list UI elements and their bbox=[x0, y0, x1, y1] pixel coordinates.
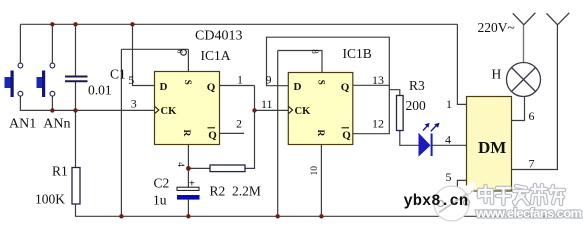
wire R1 top bbox=[75, 110, 77, 167]
wire C1 bottom bbox=[75, 82, 77, 111]
svg-text:100K: 100K bbox=[35, 192, 65, 207]
svg-text:1: 1 bbox=[237, 73, 243, 87]
svg-text:13: 13 bbox=[372, 73, 384, 87]
wire R3 bottom to LED bbox=[400, 131, 419, 146]
wire IC1B S column to bottom rail bbox=[277, 51, 279, 217]
wire DM pin5 bbox=[457, 180, 466, 216]
wire C2 bottom bbox=[187, 200, 189, 217]
pin 6 bbox=[175, 50, 184, 54]
wire IC1A S pin stub bbox=[187, 49, 189, 71]
svg-text:R: R bbox=[315, 130, 325, 137]
svg-text:CK: CK bbox=[161, 106, 178, 117]
svg-text:1u: 1u bbox=[153, 193, 167, 208]
svg-text:4: 4 bbox=[175, 162, 185, 167]
svg-text:H: H bbox=[492, 67, 502, 82]
resistor R3 bbox=[397, 96, 404, 131]
svg-text:9: 9 bbox=[266, 73, 272, 87]
flip-flop IC1A bbox=[155, 72, 220, 145]
svg-text:3: 3 bbox=[131, 97, 137, 111]
svg-text:6: 6 bbox=[175, 50, 184, 54]
module DM bbox=[467, 97, 512, 192]
svg-text:Q: Q bbox=[341, 82, 350, 94]
wire pin2 Qbar stub bbox=[220, 132, 245, 134]
resistor R1 bbox=[72, 168, 80, 205]
pushbutton AN1 bbox=[5, 63, 23, 97]
svg-text:Q: Q bbox=[342, 130, 351, 142]
wire lamp top stem bbox=[523, 25, 525, 63]
wire pin13 Q output bbox=[353, 84, 390, 86]
svg-text:CD4013: CD4013 bbox=[195, 29, 242, 44]
svg-text:AN1 ANn: AN1 ANn bbox=[9, 117, 70, 132]
svg-text:2: 2 bbox=[236, 117, 242, 131]
wire C1 top feed bbox=[75, 24, 77, 76]
svg-text:C2: C2 bbox=[154, 176, 170, 191]
node pin6 bubble bbox=[181, 49, 187, 55]
node junction dots bottom rail bbox=[119, 214, 123, 218]
svg-text:IC1A: IC1A bbox=[201, 48, 231, 63]
wire pin1 Q output bbox=[220, 85, 255, 87]
svg-text:4: 4 bbox=[445, 133, 451, 147]
node junction dots top rail bbox=[50, 22, 54, 26]
svg-text:5: 5 bbox=[128, 73, 134, 87]
capacitor C1 bbox=[65, 77, 88, 82]
svg-text:R1: R1 bbox=[52, 164, 68, 179]
wire IC1A R pin stub to C2 bbox=[187, 145, 189, 188]
antenna plug left bbox=[513, 13, 536, 25]
wire DM pin7 to antenna2 bbox=[512, 25, 558, 170]
svg-text:R: R bbox=[181, 130, 191, 137]
resistor R2 bbox=[210, 165, 245, 172]
antenna plug right bbox=[547, 13, 570, 25]
svg-text:www.elecfans.com: www.elecfans.com bbox=[475, 206, 582, 221]
wire R3 top jog bbox=[389, 90, 400, 96]
wire LED to DM pin4 bbox=[433, 144, 467, 146]
pin 8 bbox=[310, 49, 320, 54]
svg-text:ybx8.cn: ybx8.cn bbox=[404, 192, 469, 210]
node junction pin11 bbox=[252, 108, 256, 112]
svg-text:10: 10 bbox=[310, 166, 320, 176]
svg-text:12: 12 bbox=[372, 117, 384, 131]
svg-text:200: 200 bbox=[406, 98, 427, 113]
wire IC1B R pin 10 stub bbox=[320, 145, 322, 217]
wire pin9 D feedback bbox=[267, 37, 390, 134]
wire pin11 CK feed bbox=[255, 109, 289, 111]
svg-text:220V~: 220V~ bbox=[478, 20, 515, 35]
pushbutton ANn bbox=[37, 63, 55, 97]
svg-text:Q: Q bbox=[207, 82, 216, 94]
svg-text:7: 7 bbox=[529, 157, 535, 171]
node junction dots CK line bbox=[50, 108, 54, 112]
pin 10 bbox=[310, 166, 320, 176]
svg-text:1: 1 bbox=[446, 97, 452, 111]
svg-text:R2 2.2M: R2 2.2M bbox=[210, 184, 261, 199]
svg-text:DM: DM bbox=[478, 138, 506, 157]
wire button AN2 top feed bbox=[51, 24, 53, 63]
svg-text:D: D bbox=[294, 81, 302, 93]
wire left rail to button AN1 bbox=[19, 24, 21, 63]
LED D1 bbox=[419, 123, 440, 156]
capacitor C2 electrolytic bbox=[177, 179, 200, 200]
wire pin5 feed from rail bbox=[133, 24, 155, 85]
flip-flop IC1B bbox=[288, 73, 353, 145]
wire top rail bbox=[20, 23, 457, 25]
svg-text:IC1B: IC1B bbox=[343, 46, 372, 61]
wire button AN2 bottom bbox=[51, 96, 53, 110]
svg-text:Q: Q bbox=[208, 130, 217, 142]
wire R2 right lead up to Q1 column bbox=[245, 86, 255, 169]
svg-text:C1: C1 bbox=[110, 67, 126, 82]
wire S column to bottom rail bbox=[120, 49, 122, 216]
svg-text:0.01: 0.01 bbox=[88, 83, 112, 98]
node junction R pin4 bbox=[186, 166, 191, 171]
svg-text:CK: CK bbox=[295, 106, 312, 117]
svg-text:11: 11 bbox=[261, 97, 273, 111]
wire button bottoms to CK pin3 bbox=[20, 96, 154, 110]
svg-text:S: S bbox=[183, 80, 193, 85]
wire pin6 S ground line bbox=[121, 48, 188, 50]
wire R2 left lead bbox=[188, 167, 210, 169]
svg-text:R3: R3 bbox=[409, 78, 425, 93]
wire DM pin1 feed from rail bbox=[457, 24, 466, 104]
svg-text:8: 8 bbox=[310, 49, 320, 54]
wire R1 bottom to bottom rail bbox=[76, 204, 570, 216]
pin 4 bbox=[175, 162, 185, 167]
svg-text:5: 5 bbox=[446, 170, 452, 184]
svg-text:D: D bbox=[160, 81, 168, 93]
wire DM pin6 lamp stem bbox=[512, 96, 525, 120]
wire IC1B S pin 8 line bbox=[278, 51, 322, 73]
lamp H bbox=[507, 63, 541, 97]
svg-text:S: S bbox=[317, 80, 327, 85]
svg-text:6: 6 bbox=[529, 109, 535, 123]
watermark logo magnifier bbox=[434, 186, 475, 222]
